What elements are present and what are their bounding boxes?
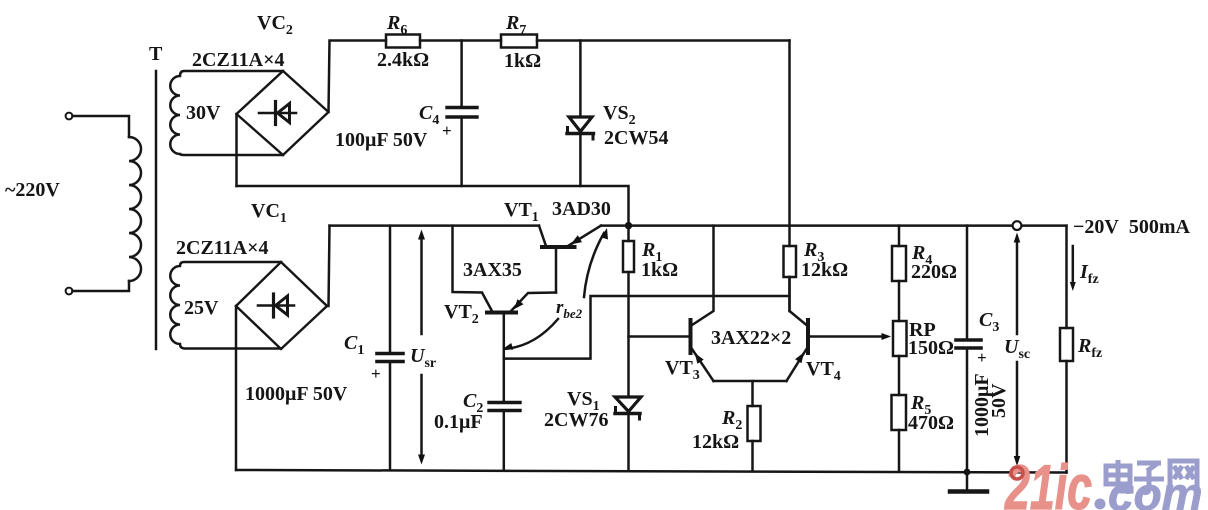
capacitor C1 — [377, 226, 403, 471]
wire RP to R5 — [898, 356, 901, 395]
svg-text:2CW54: 2CW54 — [604, 127, 668, 149]
svg-text:+: + — [977, 348, 987, 367]
wire common emitter rail VT3-VT4 — [714, 380, 787, 383]
svg-text:−20V 500mA: −20V 500mA — [1073, 216, 1191, 238]
svg-text:12kΩ: 12kΩ — [801, 259, 848, 281]
svg-text:+: + — [442, 121, 452, 140]
output terminal — [1013, 221, 1022, 230]
transformer secondary winding 25V — [170, 262, 281, 349]
svg-text:100μF 50V: 100μF 50V — [335, 129, 428, 151]
svg-text:25V: 25V — [184, 297, 219, 319]
junction dot at ground node — [964, 469, 971, 476]
wire R7 to R3 column — [537, 39, 790, 42]
resistor R5 — [892, 395, 907, 472]
wire R4 to RP — [898, 281, 901, 321]
svg-text:1kΩ: 1kΩ — [641, 259, 678, 281]
voltage arrow Usr — [418, 230, 425, 465]
wire primary top — [73, 116, 130, 137]
voltage arrow Usc — [1014, 233, 1021, 467]
main rail left segment — [330, 224, 540, 227]
wire VC1 right vertex to main rail — [329, 226, 330, 306]
resistor Rfz — [1060, 328, 1073, 473]
svg-text:3AX35: 3AX35 — [463, 259, 522, 281]
transistor VT4 — [787, 277, 892, 381]
wire R1 to VS1 — [627, 272, 630, 397]
svg-text:~220V: ~220V — [5, 179, 60, 201]
watermark 21ic.com — [1004, 453, 1202, 510]
svg-text:12kΩ: 12kΩ — [692, 431, 739, 453]
resistor R4 — [892, 226, 906, 281]
capacitor C2 — [489, 403, 520, 471]
main rail right segment — [601, 224, 1067, 227]
capacitor C3 — [956, 226, 981, 472]
resistor R2 — [748, 381, 761, 471]
wire VC2 left vertex down — [235, 114, 238, 186]
wire VT2 base to R3 bottom node — [504, 296, 790, 359]
transformer T core — [155, 71, 158, 349]
svg-text:220Ω: 220Ω — [911, 261, 957, 283]
wire VC2 right vertex to top rail — [329, 41, 387, 113]
svg-text:2CW76: 2CW76 — [544, 409, 608, 431]
transformer T primary winding — [129, 137, 141, 281]
resistor R6 — [386, 35, 420, 48]
svg-text:2CZ11A×4: 2CZ11A×4 — [176, 237, 269, 259]
svg-text:3AX22×2: 3AX22×2 — [711, 327, 791, 349]
wire primary bottom — [73, 281, 130, 291]
watermark chinese characters dian zi wang — [1106, 460, 1197, 493]
wire VC1 left vertex down — [235, 306, 238, 470]
svg-text:2.4kΩ: 2.4kΩ — [377, 49, 429, 71]
svg-text:150Ω: 150Ω — [908, 337, 954, 359]
transistor VT1 — [539, 226, 601, 293]
svg-text:T: T — [149, 43, 163, 65]
svg-text:+: + — [371, 364, 381, 383]
svg-text:21ic: 21ic — [1004, 453, 1092, 510]
resistor R7 — [501, 35, 537, 48]
transistor VT3 — [691, 226, 714, 381]
junction node A — [625, 222, 632, 229]
svg-text:2CZ11A×4: 2CZ11A×4 — [192, 49, 285, 71]
zener diode VS2 — [567, 41, 594, 187]
zener diode VS1 — [615, 397, 641, 471]
wire output to Rfz — [1065, 226, 1068, 328]
transistor VT2 — [453, 226, 557, 402]
svg-text:30V: 30V — [186, 102, 221, 124]
svg-text:0.1μF: 0.1μF — [434, 411, 483, 433]
AC input terminal lower — [66, 288, 73, 295]
svg-text:1kΩ: 1kΩ — [504, 50, 541, 72]
potentiometer RP — [893, 321, 907, 356]
transformer secondary winding 30V — [170, 71, 283, 155]
resistor R1 — [623, 226, 634, 272]
svg-text:1000μF 50V: 1000μF 50V — [245, 383, 348, 405]
capacitor C4 — [447, 41, 477, 187]
wire R6 to R7 — [420, 39, 501, 42]
AC input terminal upper — [66, 113, 73, 120]
resistor R3 — [784, 41, 797, 312]
watermark red ring — [1011, 467, 1023, 479]
watermark dot — [1095, 499, 1106, 510]
svg-text:50V: 50V — [988, 383, 1010, 418]
wire node A to VT3 base — [629, 335, 690, 338]
current arrow Ifz — [1070, 246, 1076, 291]
bridge rectifier VC2 — [237, 71, 329, 155]
svg-text:3AD30: 3AD30 — [552, 198, 611, 220]
bottom rail — [236, 470, 1067, 473]
annotation rbe2 arrows — [503, 228, 609, 350]
wire auxiliary bottom rail — [237, 186, 629, 226]
svg-text:470Ω: 470Ω — [908, 412, 954, 434]
bridge rectifier VC1 — [236, 262, 327, 349]
ground — [950, 472, 987, 492]
